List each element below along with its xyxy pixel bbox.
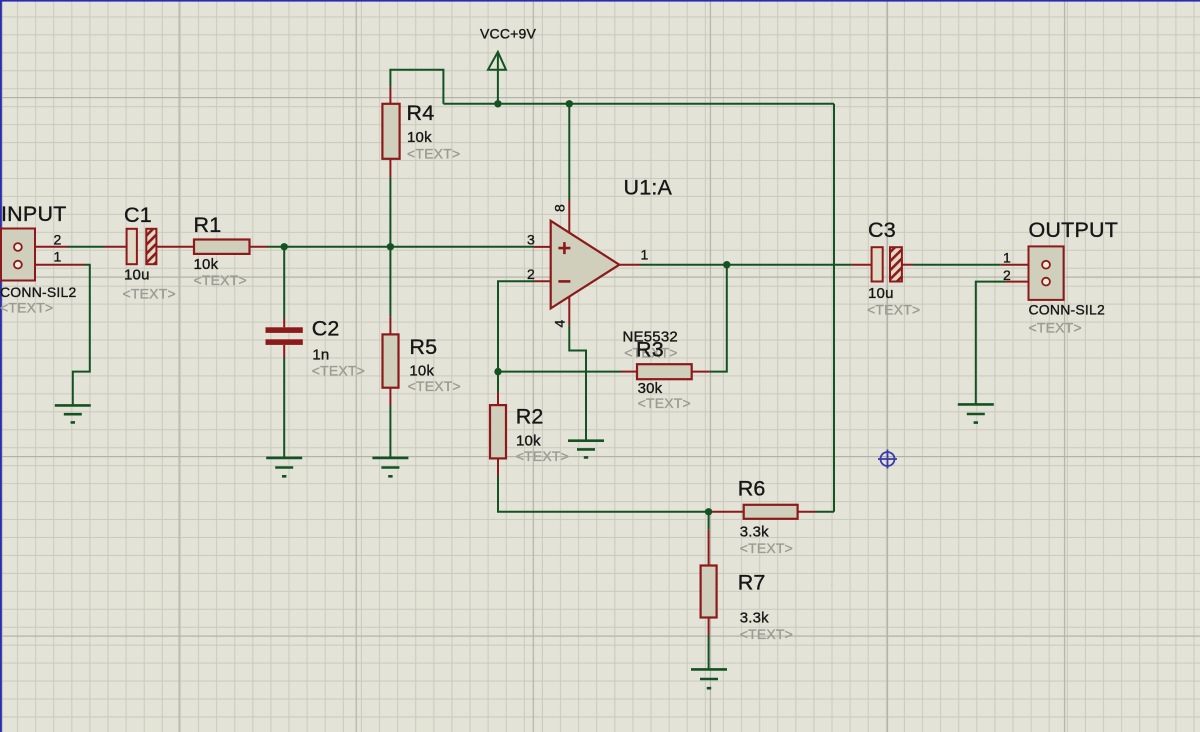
wire: op-amp pin 4 stub (red) xyxy=(568,297,570,326)
capacitor C2 body xyxy=(266,327,303,345)
svg-text:R7: R7 xyxy=(738,571,766,595)
wire: OUTPUT pin 2 to ground (green) xyxy=(976,282,1006,404)
svg-text:1: 1 xyxy=(54,249,62,265)
svg-text:<TEXT>: <TEXT> xyxy=(1029,320,1082,336)
svg-text:2: 2 xyxy=(1003,267,1011,283)
capacitor C1 body (polarised) xyxy=(127,229,157,264)
svg-text:10k: 10k xyxy=(407,129,432,146)
resistor R7 body xyxy=(701,566,717,618)
wire: R3 up to output node (green) xyxy=(709,265,726,372)
junction node: feedback node at R2/R3 xyxy=(494,368,501,375)
svg-text:R6: R6 xyxy=(738,477,766,501)
wire: C3 left pin (red) xyxy=(851,264,871,266)
svg-text:2: 2 xyxy=(527,266,535,282)
wire: feedback node down to R2 (green) xyxy=(497,372,499,392)
wire: C2 top pin (red) xyxy=(283,319,285,328)
ground symbol (INPUT pin 1) xyxy=(55,405,91,422)
sheet border top xyxy=(0,0,1200,2)
svg-text:CONN-SIL2: CONN-SIL2 xyxy=(1029,302,1105,318)
svg-text:<TEXT>: <TEXT> xyxy=(408,378,461,394)
svg-text:3.3k: 3.3k xyxy=(740,610,769,627)
wire: R6 left pin (red) xyxy=(709,511,744,513)
svg-text:<TEXT>: <TEXT> xyxy=(194,272,247,288)
capacitor C3 body (polarised) xyxy=(872,247,902,281)
wire: op-amp pin 8 to power rail (green) xyxy=(568,104,570,201)
ground symbol (OUTPUT pin 2) xyxy=(958,404,994,422)
wire: op-amp pin 2 to feedback node (green) xyxy=(498,281,534,371)
junction node: pin 8 on power rail xyxy=(566,100,573,107)
svg-text:VCC+9V: VCC+9V xyxy=(480,25,537,41)
svg-text:<TEXT>: <TEXT> xyxy=(740,540,793,556)
power symbol VCC+9V arrow xyxy=(488,52,506,70)
wire: INPUT pin2 to C1 (green) xyxy=(68,246,105,248)
svg-text:1: 1 xyxy=(1003,250,1011,266)
resistor R5 body xyxy=(383,334,399,387)
svg-text:<TEXT>: <TEXT> xyxy=(0,300,53,316)
wire: C2 to ground (green) xyxy=(283,358,285,458)
ground symbol (R7) xyxy=(691,669,727,688)
wire: R7 top pin (red) xyxy=(708,530,710,566)
wire: R7 to ground (green) xyxy=(708,636,710,670)
resistor R1 body xyxy=(194,240,250,254)
wire: op-amp pin 2 stub (red) xyxy=(534,280,552,282)
svg-text:C2: C2 xyxy=(312,317,340,341)
svg-text:<TEXT>: <TEXT> xyxy=(407,145,460,161)
junction node: output node at R3/C3 xyxy=(723,261,730,268)
svg-text:<TEXT>: <TEXT> xyxy=(740,626,793,642)
svg-text:10k: 10k xyxy=(194,256,219,273)
svg-text:R2: R2 xyxy=(516,405,544,429)
wire: C1 left pin (red) xyxy=(105,246,127,248)
wire: op-amp pin 8 stub (red) xyxy=(568,201,570,234)
wire: R3 right pin (red) xyxy=(692,371,710,373)
svg-text:CONN-SIL2: CONN-SIL2 xyxy=(0,284,76,300)
wire: C3 right pin (red) xyxy=(902,264,913,266)
wire: R4 to main line (green) xyxy=(389,178,391,247)
wire: R4 bottom pin (red) xyxy=(389,159,391,178)
wire: R7 bottom pin (red) xyxy=(708,618,710,636)
ground symbol (op-amp pin 4) xyxy=(568,441,604,458)
wire: power rail corner down to R6 (green) xyxy=(833,104,835,512)
wire: R5 top pin (red) xyxy=(389,316,391,334)
svg-text:<TEXT>: <TEXT> xyxy=(867,302,920,318)
sheet border left xyxy=(0,0,2,732)
wire: INPUT pin 2 stub (red) xyxy=(35,246,68,248)
svg-text:R5: R5 xyxy=(409,335,437,359)
wire: op-amp pin 3 stub (red) xyxy=(534,246,552,248)
resistor R3 body xyxy=(637,364,692,379)
wire: R5 bottom pin (red) xyxy=(389,388,391,406)
svg-text:<TEXT>: <TEXT> xyxy=(516,448,569,464)
wire: main line down to R5 (green) xyxy=(389,247,391,317)
wire: op-amp output pin 1 stub (red) xyxy=(619,264,640,266)
svg-text:8: 8 xyxy=(552,204,568,212)
wire: node to R7 (green) xyxy=(708,512,710,530)
svg-text:1n: 1n xyxy=(312,346,329,363)
wire: R2 bottom pin (red) xyxy=(497,458,499,476)
svg-text:2: 2 xyxy=(54,231,62,247)
wire: R6 right pin (red) xyxy=(798,511,816,513)
resistor R6 body xyxy=(744,505,798,519)
wire: R2 top pin (red) xyxy=(497,392,499,406)
origin marker (blue crosshair) xyxy=(878,450,897,469)
wire: C2 branch from main line (green) xyxy=(283,247,285,319)
svg-text:C1: C1 xyxy=(124,203,152,227)
svg-text:10u: 10u xyxy=(124,266,150,283)
junction node: R6/R7 bias divider xyxy=(705,508,712,515)
wire: OUTPUT pin 1 stub (red) xyxy=(1001,264,1029,266)
svg-text:OUTPUT: OUTPUT xyxy=(1029,218,1119,242)
wire: R4 top jog to power rail (green) xyxy=(390,70,443,104)
svg-text:<TEXT>: <TEXT> xyxy=(123,286,176,302)
wire: C2 bottom pin (red) xyxy=(283,345,285,358)
wire: C3 to OUTPUT pin 1 (green) xyxy=(913,264,1001,266)
svg-text:R4: R4 xyxy=(407,101,435,125)
junction node: VCC on power rail xyxy=(494,100,501,107)
connector J1 INPUT (CONN-SIL2) body xyxy=(1,229,35,281)
wire: op-amp pin 4 to ground (green) xyxy=(569,325,586,440)
wire: R2 to bias divider line (green) xyxy=(498,476,709,512)
wire: R1 right pin (red) xyxy=(250,246,269,248)
svg-text:U1:A: U1:A xyxy=(624,175,673,199)
wire: R3 left pin (red) xyxy=(621,371,637,373)
svg-text:R3: R3 xyxy=(636,338,664,362)
ground symbol (C2) xyxy=(266,458,302,476)
wire: R5 to ground (green) xyxy=(389,406,391,458)
junction node: R4/R5 on main line xyxy=(387,243,394,250)
wire: R6 to vertical rail (green) xyxy=(816,511,835,513)
wire: feedback node to R3 (green) xyxy=(498,371,621,373)
ground symbol (R5) xyxy=(372,458,408,476)
resistor R2 body xyxy=(490,405,506,458)
wire: R4 top pin (red) xyxy=(389,87,391,104)
wire: VCC power stem (green) xyxy=(497,52,499,104)
wire: OUTPUT pin 2 stub (red) xyxy=(1006,281,1029,283)
junction node: R1/C2 on main line xyxy=(281,243,288,250)
svg-text:3: 3 xyxy=(527,232,535,248)
wire: R1 to op-amp pin 3 (green, main signal line) xyxy=(268,246,534,248)
svg-text:1: 1 xyxy=(641,246,649,262)
wire: INPUT pin1 down to ground (green) xyxy=(73,265,90,405)
svg-text:3.3k: 3.3k xyxy=(740,524,769,541)
svg-text:C3: C3 xyxy=(868,218,896,242)
svg-text:10k: 10k xyxy=(409,362,434,379)
resistor R4 body xyxy=(382,104,399,159)
svg-text:INPUT: INPUT xyxy=(1,202,67,226)
op-amp U1:A body xyxy=(551,221,620,309)
svg-text:<TEXT>: <TEXT> xyxy=(638,395,691,411)
svg-text:10u: 10u xyxy=(868,285,894,302)
svg-text:4: 4 xyxy=(552,320,568,328)
connector J2 OUTPUT (CONN-SIL2) body xyxy=(1029,246,1064,300)
wire: power rail horizontal (green) xyxy=(443,103,834,105)
svg-text:R1: R1 xyxy=(194,213,222,237)
wire: output to C3 (green) xyxy=(641,264,852,266)
wire: C1 right pin to R1 (red) xyxy=(156,246,194,248)
svg-text:<TEXT>: <TEXT> xyxy=(312,362,365,378)
svg-text:10k: 10k xyxy=(516,432,541,449)
wire: INPUT pin 1 stub (red) xyxy=(35,264,85,266)
